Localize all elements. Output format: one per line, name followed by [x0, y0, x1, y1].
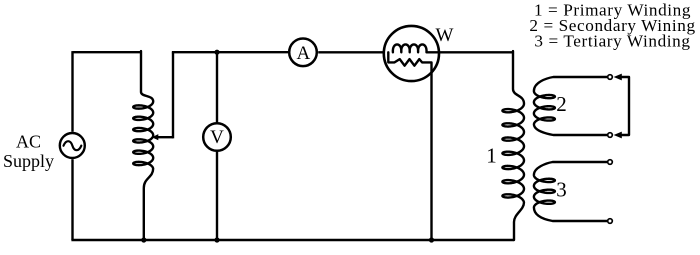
svg-text:2: 2 — [556, 92, 567, 116]
svg-text:AC: AC — [16, 132, 41, 152]
svg-text:3: 3 — [556, 177, 567, 201]
svg-text:W: W — [436, 25, 454, 46]
svg-text:3 = Tertiary Winding: 3 = Tertiary Winding — [534, 31, 690, 50]
svg-text:A: A — [297, 43, 311, 64]
svg-text:1: 1 — [486, 144, 497, 168]
svg-text:V: V — [210, 127, 224, 148]
svg-text:Supply: Supply — [3, 151, 54, 171]
